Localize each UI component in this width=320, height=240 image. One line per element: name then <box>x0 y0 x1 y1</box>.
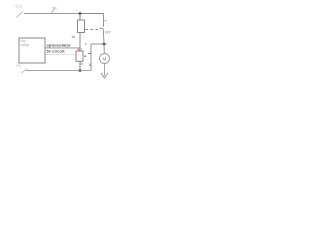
svg-text:+12v: +12v <box>13 4 23 9</box>
svg-text:+v: +v <box>74 8 78 12</box>
svg-text:M: M <box>103 56 107 61</box>
svg-text:PWM: PWM <box>21 43 29 47</box>
svg-text:5v circuit: 5v circuit <box>47 49 66 54</box>
svg-text:optoisolator: optoisolator <box>47 42 72 47</box>
svg-text:1k: 1k <box>71 35 75 39</box>
svg-text:1k: 1k <box>88 63 92 67</box>
svg-text:dl: dl <box>104 19 107 23</box>
svg-text:FET: FET <box>105 30 111 34</box>
